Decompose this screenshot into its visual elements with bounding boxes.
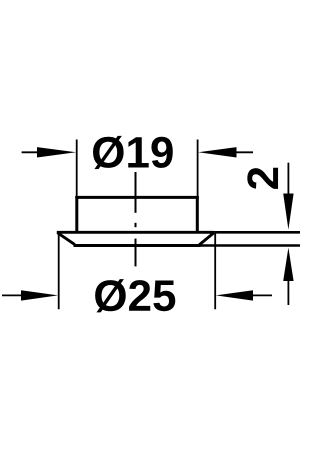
dimension arrow Ø25 left shaft bbox=[2, 294, 23, 296]
flange bottom edge thick bbox=[74, 244, 201, 247]
dimension arrow 2 top shaft bbox=[287, 163, 289, 194]
extension line right of Ø19 bbox=[197, 140, 199, 197]
dimension arrowhead Ø19 right bbox=[198, 147, 236, 157]
dimension arrow 2 bottom shaft bbox=[287, 280, 289, 305]
flange left bevel bbox=[57, 233, 74, 245]
centerline dash long bbox=[135, 172, 137, 213]
flange bottom extension line to right edge bbox=[201, 244, 301, 247]
flange right bevel bbox=[199, 233, 214, 245]
dimension arrow Ø19 right shaft bbox=[235, 151, 254, 153]
dimension arrowhead Ø25 left bbox=[21, 290, 58, 300]
dimension arrow Ø19 left shaft bbox=[22, 151, 39, 153]
dimension arrowhead Ø19 left bbox=[37, 147, 76, 157]
dimension arrowhead Ø25 right bbox=[216, 290, 253, 300]
part right side bbox=[196, 196, 199, 233]
flange top extension line to right edge bbox=[214, 231, 300, 234]
flange top edge thick bbox=[57, 231, 215, 234]
dimension arrow Ø25 right shaft bbox=[252, 294, 272, 296]
part top edge bbox=[75, 196, 199, 199]
extension line right of Ø25 bbox=[214, 233, 216, 309]
dimension label 2 (rotated) bbox=[247, 168, 278, 189]
centerline dot bbox=[135, 223, 137, 227]
dimension arrowhead 2 down bbox=[283, 194, 293, 230]
dimension label Ø19 bbox=[93, 136, 173, 169]
extension line left of Ø25 bbox=[58, 233, 60, 309]
centerline dash lower bbox=[135, 239, 137, 267]
dimension arrowhead 2 up bbox=[283, 248, 293, 281]
extension line left of Ø19 bbox=[76, 140, 78, 197]
part left side bbox=[75, 196, 78, 233]
dimension label Ø25 bbox=[95, 279, 175, 312]
